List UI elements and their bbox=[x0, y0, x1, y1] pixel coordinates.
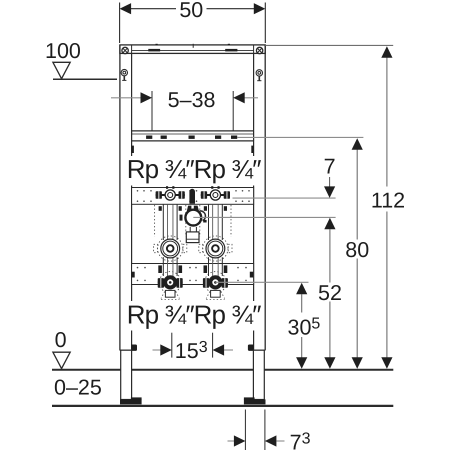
svg-text:52: 52 bbox=[318, 281, 342, 305]
svg-text:0–25: 0–25 bbox=[54, 376, 102, 400]
svg-text:73: 73 bbox=[290, 431, 311, 450]
svg-text:Rp ¾″Rp ¾″: Rp ¾″Rp ¾″ bbox=[127, 154, 261, 184]
svg-text:100: 100 bbox=[45, 39, 81, 63]
svg-text:Rp ¾″Rp ¾″: Rp ¾″Rp ¾″ bbox=[127, 299, 261, 329]
svg-text:112: 112 bbox=[371, 189, 405, 213]
svg-text:5–38: 5–38 bbox=[168, 88, 216, 112]
svg-text:7: 7 bbox=[324, 155, 336, 179]
svg-text:50: 50 bbox=[179, 0, 203, 22]
svg-text:0: 0 bbox=[55, 328, 67, 352]
svg-text:80: 80 bbox=[345, 238, 369, 262]
